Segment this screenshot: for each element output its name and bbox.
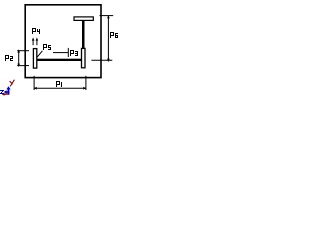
T-section top flange [74, 17, 93, 21]
P1 arrow left [33, 87, 36, 90]
P4 direction arrow 1 [32, 40, 34, 46]
axis icon: label y (maroon) [10, 80, 14, 86]
P1 extension line left [33, 76, 35, 90]
left plate [33, 49, 36, 69]
axis icon: label z (blue) [0, 90, 4, 94]
P6 arrow up [107, 15, 110, 18]
P2 extension line top [17, 50, 29, 52]
P2 extension line bottom [17, 65, 29, 67]
P6 dimension line [107, 16, 109, 61]
outer frame rectangle [25, 5, 101, 78]
P6 arrow down [107, 59, 110, 62]
P3 dimension line [53, 52, 68, 54]
beam web (thick line) [37, 59, 81, 61]
axis icon: blue up arrow [8, 89, 10, 95]
T-section stem [82, 20, 85, 48]
axis icon: maroon x arrow [3, 93, 9, 95]
label P1 [56, 81, 62, 87]
P2 dimension line [18, 50, 20, 66]
P3 tick [67, 48, 69, 57]
P6 extension line bottom [91, 59, 112, 61]
axis icon: blue left arrow [6, 91, 10, 93]
label P3 [70, 50, 78, 56]
label P2 [5, 55, 13, 61]
P1 arrow right [83, 87, 86, 90]
label P4 [32, 28, 40, 34]
P1 dimension line [34, 87, 86, 89]
right plate [82, 48, 86, 67]
label P6 [110, 32, 118, 38]
P6 extension line top [100, 15, 114, 17]
label P5 [43, 44, 51, 50]
P2 arrow up [17, 49, 20, 52]
P2 arrow down [17, 64, 20, 67]
P1 extension line right [85, 76, 87, 90]
P4 direction arrow 2 [36, 40, 38, 46]
P5 leader line [37, 51, 42, 57]
